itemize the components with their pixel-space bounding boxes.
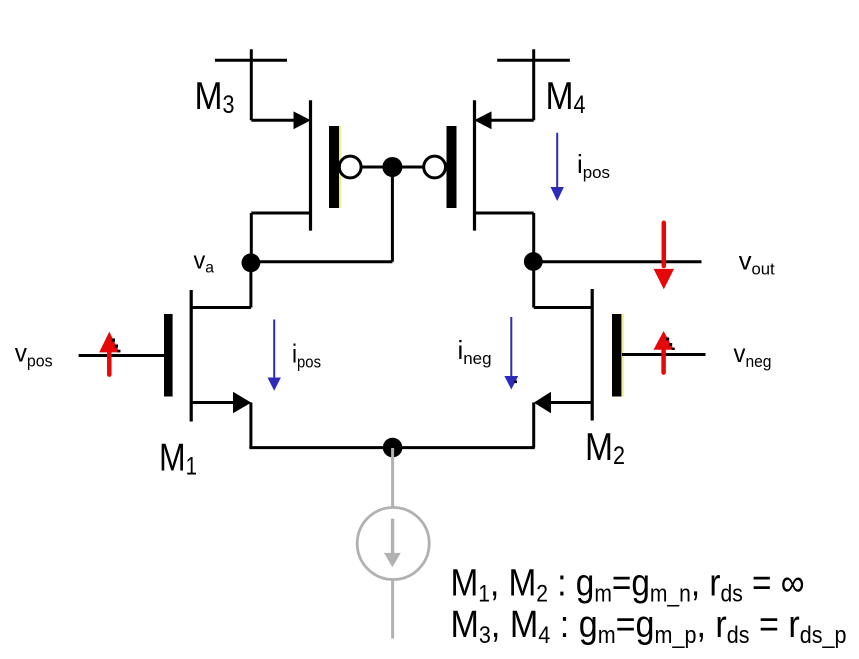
transistor M2 (534, 289, 624, 448)
blue arrow ineg (504, 317, 518, 390)
wire gate junction down to va (251, 167, 393, 262)
transistor M4 (424, 49, 534, 256)
label M1 (159, 437, 197, 481)
gate wire between M3 and M4 bubbles (361, 166, 425, 169)
equation line 2 (451, 604, 847, 649)
node vout (524, 252, 543, 271)
label M4 (546, 75, 586, 119)
red arrow vout (654, 223, 674, 289)
svg-text:M1, M2 : gm=gm_n, rds = ∞: M1, M2 : gm=gm_n, rds = ∞ (451, 563, 805, 608)
node tail (383, 438, 403, 458)
label ipos (M4 branch) (577, 149, 610, 182)
gate junction node (382, 157, 402, 177)
label va (194, 247, 215, 276)
svg-text:M3, M4 : gm=gm_p, rds = rds_p: M3, M4 : gm=gm_p, rds = rds_p (451, 604, 847, 649)
red arrow vneg (654, 331, 675, 373)
blue arrow ipos (M1 branch) (268, 320, 281, 391)
label vpos (15, 338, 53, 371)
wire current source to bottom (391, 580, 394, 639)
node va (242, 253, 261, 272)
wire tail to current source (391, 448, 394, 508)
transistor M1 (164, 290, 251, 448)
label ineg (458, 335, 492, 368)
label M3 (195, 75, 235, 119)
label M2 (585, 426, 625, 470)
blue arrow ipos (M4 branch) (551, 133, 564, 201)
current source Ibias (357, 508, 429, 580)
label vneg (734, 338, 772, 371)
bottom rail (tail wire) (249, 446, 534, 449)
label ipos (M1 branch) (292, 339, 321, 372)
equation line 1 (451, 563, 805, 608)
VDD rail for M3 (215, 59, 287, 62)
wire va to M1 drain (249, 263, 252, 308)
label vout (739, 245, 775, 278)
input wire vpos (79, 354, 164, 357)
wire vout node to M2 drain (532, 263, 535, 308)
output wire vout (533, 260, 701, 263)
transistor M3 (251, 49, 361, 256)
input wire vneg (622, 353, 706, 356)
red arrow vpos (99, 332, 120, 375)
VDD rail for M4 (497, 59, 570, 62)
